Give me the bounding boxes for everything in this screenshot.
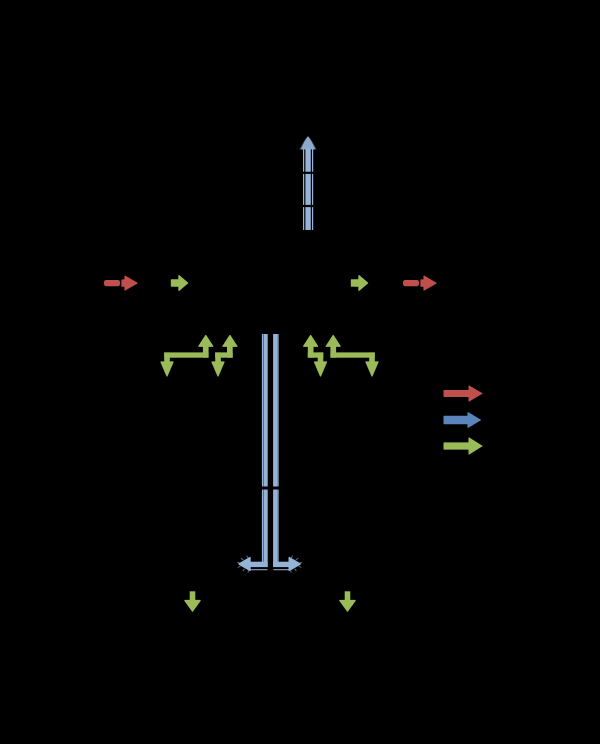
legend blue arrow [444,413,481,428]
blue trunk left foot [237,556,268,573]
green elbow S4 (far right: up-arrow left, long bar, down-arrow right) [326,336,378,377]
green elbow S3 (inner right: compact pair mirrored) [304,336,327,377]
green small arrow left [172,276,188,290]
blue trunk right foot [273,556,302,573]
green elbow S1 (far left: up-arrow right, long bar, down-arrow left) [161,336,213,377]
green elbow S2 (inner left: compact pair) [212,336,237,377]
blue trunk left bar (dashed compound) [263,334,266,567]
legend green arrow [444,438,482,454]
red dashed arrow left [104,276,137,290]
green small arrow right [352,276,368,290]
bottom green down arrow left [185,591,200,611]
blue up-arrow (transpiration) head [300,136,316,149]
blue trunk right bar (dashed compound) [275,334,278,567]
legend red arrow [444,386,482,401]
bottom green down arrow right [340,591,355,611]
blue up-arrow shaft (dashed compound) [304,149,313,230]
red dashed arrow right [403,276,436,290]
